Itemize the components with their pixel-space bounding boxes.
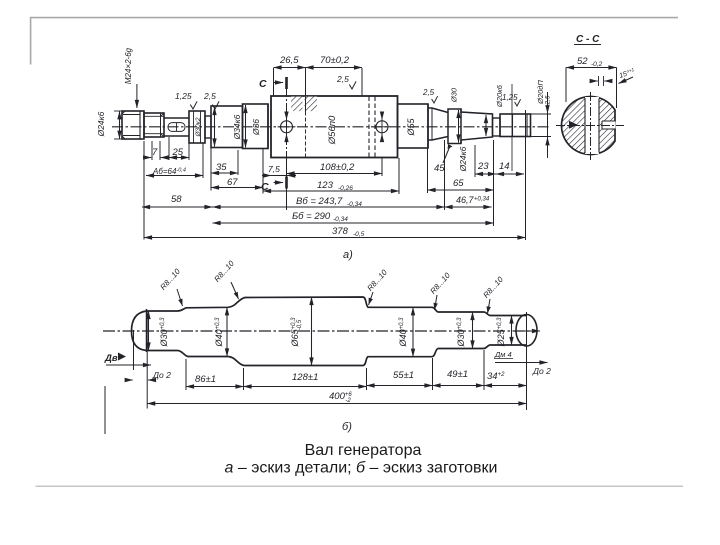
svg-text:23: 23 bbox=[477, 161, 489, 172]
svg-text:+0,34: +0,34 bbox=[474, 197, 490, 203]
svg-text:14: 14 bbox=[499, 161, 510, 172]
svg-text:Дм 4: Дм 4 bbox=[494, 350, 512, 359]
svg-text:Дв: Дв bbox=[104, 353, 118, 364]
svg-text:35: 35 bbox=[216, 162, 227, 173]
svg-text:Ø56п0: Ø56п0 bbox=[327, 115, 338, 145]
svg-text:б): б) bbox=[342, 421, 352, 433]
svg-text:Bб = 243,7: Bб = 243,7 bbox=[296, 196, 343, 207]
svg-text:52: 52 bbox=[577, 56, 588, 67]
svg-text:1,25: 1,25 bbox=[502, 93, 518, 102]
svg-text:Ø30: Ø30 bbox=[450, 87, 459, 103]
svg-text:7: 7 bbox=[152, 147, 158, 158]
svg-text:Вал генератора: Вал генератора bbox=[305, 442, 422, 459]
svg-text:65: 65 bbox=[453, 178, 464, 189]
svg-text:Ø30к2: Ø30к2 bbox=[195, 117, 202, 137]
svg-text:25: 25 bbox=[172, 147, 184, 158]
svg-text:49±1: 49±1 bbox=[447, 369, 468, 380]
svg-text:C: C bbox=[259, 78, 267, 90]
svg-text:123: 123 bbox=[317, 180, 334, 191]
svg-text:26,5: 26,5 bbox=[279, 55, 299, 66]
svg-text:2,5: 2,5 bbox=[203, 91, 216, 101]
svg-text:46,7: 46,7 bbox=[456, 195, 475, 205]
svg-text:58: 58 bbox=[171, 194, 182, 205]
svg-text:55±1: 55±1 bbox=[393, 370, 414, 381]
svg-text:2,5: 2,5 bbox=[336, 74, 349, 84]
svg-text:M24×2-6g: M24×2-6g bbox=[124, 47, 133, 84]
svg-text:До 2: До 2 bbox=[532, 366, 551, 376]
svg-text:Ø36: Ø36 bbox=[251, 119, 261, 136]
svg-text:-0,2: -0,2 bbox=[591, 61, 603, 68]
svg-text:-0,34: -0,34 bbox=[333, 216, 348, 223]
svg-text:-0,5: -0,5 bbox=[353, 231, 365, 238]
svg-text:-0,26: -0,26 bbox=[338, 185, 353, 192]
svg-text:-0,34: -0,34 bbox=[347, 201, 362, 208]
svg-text:C - C: C - C bbox=[576, 34, 600, 45]
svg-text:378: 378 bbox=[332, 226, 349, 237]
svg-text:а): а) bbox=[343, 249, 353, 261]
svg-text:70±0,2: 70±0,2 bbox=[320, 55, 350, 66]
svg-text:67: 67 bbox=[227, 177, 238, 188]
svg-text:Ø55: Ø55 bbox=[406, 118, 416, 137]
svg-text:1,25: 1,25 bbox=[175, 91, 192, 101]
svg-text:86±1: 86±1 bbox=[195, 374, 216, 385]
svg-text:108±0,2: 108±0,2 bbox=[320, 162, 355, 173]
svg-text:128±1: 128±1 bbox=[292, 372, 318, 383]
svg-text:Ø20к6: Ø20к6 bbox=[495, 84, 504, 108]
svg-text:Ø34к6: Ø34к6 bbox=[232, 114, 242, 140]
svg-text:45: 45 bbox=[434, 163, 445, 174]
svg-text:а – эскиз детали; б – эскиз за: а – эскиз детали; б – эскиз заготовки bbox=[225, 460, 498, 477]
svg-text:Бб = 290: Бб = 290 bbox=[292, 211, 331, 222]
svg-text:2,5: 2,5 bbox=[422, 88, 435, 97]
svg-text:До 2: До 2 bbox=[152, 370, 171, 380]
svg-text:Ø24к6: Ø24к6 bbox=[96, 111, 106, 137]
svg-text:Ø24к6: Ø24к6 bbox=[458, 146, 468, 172]
svg-text:7,5: 7,5 bbox=[268, 164, 280, 174]
